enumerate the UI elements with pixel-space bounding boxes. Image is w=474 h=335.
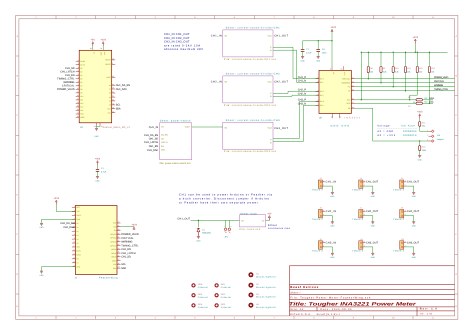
svg-text:+3V3: +3V3 <box>417 111 423 114</box>
title block <box>290 265 455 267</box>
svg-text:GND: GND <box>40 274 45 277</box>
wire CH2 sense to INA <box>273 91 319 93</box>
svg-text:TMstik-2: TMstik-2 <box>352 218 364 221</box>
svg-text:CH2_OUT: CH2_OUT <box>407 210 420 213</box>
svg-text:GND: GND <box>301 59 306 62</box>
J1 right pins <box>117 222 121 224</box>
svg-text:Vout: Vout <box>267 127 271 130</box>
svg-text:D7: D7 <box>80 85 82 88</box>
ground <box>40 271 43 273</box>
wire <box>92 46 94 50</box>
capacitor C8 <box>317 41 319 49</box>
svg-text:KiCad E.D.A.: KiCad E.D.A. <box>290 313 311 316</box>
svg-text:RST: RST <box>76 206 79 209</box>
svg-text:GND: GND <box>418 158 423 161</box>
svg-text:File: current-sense-hi-side-CH: File: current-sense-hi-side-CH1.sch <box>224 58 277 61</box>
svg-text:AREF: AREF <box>80 116 85 119</box>
svg-text:RESET: RESET <box>105 63 111 66</box>
svg-text:D2: D2 <box>80 67 82 70</box>
wire <box>367 73 369 79</box>
mounting hole H3 <box>248 293 253 298</box>
svg-text:D10: D10 <box>80 95 83 98</box>
svg-text:GND: GND <box>371 225 376 228</box>
wire 3V3 bus <box>331 31 333 66</box>
svg-text:G: G <box>455 273 457 276</box>
svg-text:1000001X: 1000001X <box>403 134 417 137</box>
svg-text:Sheet: power-switch: Sheet: power-switch <box>160 119 191 122</box>
svg-text:AREF: AREF <box>76 214 81 217</box>
svg-text:A0: A0 <box>348 107 350 110</box>
svg-text:MountingHole: MountingHole <box>256 286 276 289</box>
wire CH1_OUT rail <box>191 219 240 221</box>
svg-text:File: current-sense-hi-side-CH: File: current-sense-hi-side-CH3.sch <box>224 150 277 153</box>
svg-text:TIMING_CTRL: TIMING_CTRL <box>434 88 449 91</box>
op-amp U1 Adafruit_Metro_M0 MCU body <box>79 50 112 123</box>
svg-text:3V3: 3V3 <box>113 225 116 228</box>
svg-text:100n: 100n <box>322 51 326 54</box>
svg-text:SCL: SCL <box>429 101 434 104</box>
mounting hole H1 <box>248 272 253 277</box>
ground <box>371 253 374 255</box>
connector J9 terminal block CH3_IN <box>318 241 322 249</box>
wire CH1 sense to INA <box>273 47 319 78</box>
svg-text:+3V3: +3V3 <box>54 197 60 200</box>
svg-text:TMstik-2: TMstik-2 <box>393 250 405 253</box>
svg-text:+5V: +5V <box>267 212 272 215</box>
ground <box>95 128 98 130</box>
wire <box>419 151 421 156</box>
svg-text:GND: GND <box>96 179 101 182</box>
svg-text:+3V3: +3V3 <box>330 26 336 29</box>
svg-text:TMstik-2: TMstik-2 <box>352 250 364 253</box>
svg-text:R12: R12 <box>419 67 422 70</box>
svg-text:GND: GND <box>371 256 376 259</box>
svg-text:CH1_OUT: CH1_OUT <box>407 181 420 184</box>
ground <box>371 192 374 194</box>
svg-text:CH1_LATCH: CH1_LATCH <box>144 141 158 144</box>
svg-text:Vin: Vin <box>224 127 227 130</box>
svg-text:GND: GND <box>316 59 321 62</box>
border division ticks <box>55 16 57 19</box>
svg-text:J8: J8 <box>401 207 403 210</box>
ground <box>331 253 334 255</box>
svg-text:SCL: SCL <box>347 99 351 102</box>
svg-text:CH1_DAC: CH1_DAC <box>63 226 74 229</box>
svg-text:R14: R14 <box>422 122 425 125</box>
U2 left pins <box>316 78 320 80</box>
svg-text:CH1_DAC: CH1_DAC <box>116 88 127 91</box>
svg-text:10k: 10k <box>419 70 422 73</box>
svg-text:D5: D5 <box>80 78 82 81</box>
wire gnd row4 <box>42 219 76 223</box>
svg-text:CH1_OUT: CH1_OUT <box>177 218 190 221</box>
svg-text:CH3_P: CH3_P <box>298 99 307 102</box>
svg-text:CH2_N: CH2_N <box>298 92 306 95</box>
svg-text:A3: A3 <box>109 96 111 99</box>
svg-text:I2C Addr: I2C Addr <box>401 124 415 127</box>
svg-text:TMstik-2: TMstik-2 <box>312 250 324 253</box>
ground <box>418 156 421 158</box>
svg-text:CH2_OUT: CH2_OUT <box>366 210 379 213</box>
svg-text:R8: R8 <box>370 67 372 70</box>
svg-text:TMstik-2: TMstik-2 <box>352 189 364 192</box>
resistor R10 <box>392 52 394 66</box>
svg-text:D0/RX: D0/RX <box>80 60 86 63</box>
svg-text:A0 = GND: A0 = GND <box>377 130 393 133</box>
connector J7 terminal block CH2_OUT <box>359 210 363 218</box>
svg-text:SCL: SCL <box>108 111 111 114</box>
svg-text:CH3_N: CH3_N <box>298 103 306 106</box>
wire <box>392 73 394 87</box>
svg-text:CH2_IN CH2_OUT: CH2_IN CH2_OUT <box>164 37 190 40</box>
svg-text:CRITICAL: CRITICAL <box>342 77 350 80</box>
svg-text:500mA: 500mA <box>268 224 277 227</box>
fiducial FID1 <box>215 284 218 287</box>
svg-text:Fiducial: Fiducial <box>221 296 232 299</box>
svg-text:CH1_LATCH: CH1_LATCH <box>121 252 135 255</box>
svg-text:G: G <box>16 273 18 276</box>
svg-text:CH1_EN: CH1_EN <box>149 145 159 148</box>
fiducial FID2 <box>215 294 218 297</box>
svg-text:10k: 10k <box>431 70 434 73</box>
svg-text:MOSI: MOSI <box>76 250 81 253</box>
svg-text:MountingHole: MountingHole <box>256 275 276 278</box>
svg-text:File: power-switch-switch.sch: File: power-switch-switch.sch <box>160 162 192 165</box>
svg-text:A2: A2 <box>109 92 111 95</box>
ground <box>96 177 99 179</box>
svg-text:GND: GND <box>330 195 335 198</box>
wire R12 jog to SDA <box>410 73 418 100</box>
wire 3V3 bus top <box>414 44 416 53</box>
svg-text:CH2_P: CH2_P <box>298 89 307 92</box>
resistor R11 <box>405 52 407 66</box>
svg-text:+3V3: +3V3 <box>95 158 101 161</box>
svg-text:CRITICAL: CRITICAL <box>434 80 445 83</box>
svg-text:Size: A4: Size: A4 <box>290 308 304 311</box>
svg-text:D12: D12 <box>80 102 83 105</box>
mounting hole H2 <box>248 283 253 288</box>
svg-text:CH2_IN: CH2_IN <box>326 210 337 213</box>
svg-text:CH1_N: CH1_N <box>298 80 306 83</box>
svg-text:J7: J7 <box>360 207 362 210</box>
svg-text:GND: GND <box>371 195 376 198</box>
svg-text:GND GND: GND GND <box>331 125 350 128</box>
svg-text:J5: J5 <box>401 177 403 180</box>
U2 top pins <box>331 66 333 70</box>
svg-text:TMstik-2: TMstik-2 <box>312 189 324 192</box>
svg-text:MountingHole: MountingHole <box>256 306 276 309</box>
svg-text:D4: D4 <box>80 74 82 77</box>
ground <box>412 253 415 255</box>
svg-text:D9: D9 <box>80 92 82 95</box>
svg-text:CH2_IN: CH2_IN <box>211 81 222 84</box>
svg-text:CH1_DA_EN: CH1_DA_EN <box>116 84 130 87</box>
connector J1 FeatherWing body <box>75 206 117 275</box>
svg-text:CH3_IN CH3_OUT: CH3_IN CH3_OUT <box>164 41 190 44</box>
svg-text:BAT: BAT <box>113 222 116 225</box>
svg-text:MountingHole: MountingHole <box>256 296 276 299</box>
svg-text:A4: A4 <box>76 238 78 241</box>
svg-text:Sheet: current-sense-hi-side-C: Sheet: current-sense-hi-side-CH2 <box>226 73 281 76</box>
svg-text:D8: D8 <box>80 88 82 91</box>
svg-text:CH1_DAC: CH1_DAC <box>147 149 158 152</box>
svg-text:IN-3: IN-3 <box>320 104 323 107</box>
resistor R13 <box>428 52 430 66</box>
U2 right pins <box>351 78 355 80</box>
svg-text:Voltage: Voltage <box>377 124 390 127</box>
svg-text:A0 = +3V3: A0 = +3V3 <box>377 134 395 137</box>
svg-text:I2C: I2C <box>425 101 429 104</box>
svg-text:1000000X: 1000000X <box>403 130 417 133</box>
connector J5 terminal block CH1_OUT <box>400 180 404 188</box>
svg-text:TMstik-2: TMstik-2 <box>312 218 324 221</box>
svg-text:GND: GND <box>330 225 335 228</box>
svg-text:CH1_IN: CH1_IN <box>326 181 337 184</box>
capacitor C7 <box>302 41 304 49</box>
svg-text:J12: J12 <box>401 238 404 241</box>
svg-text:CH1_IN: CH1_IN <box>211 35 222 38</box>
svg-text:GPIO13: GPIO13 <box>110 233 116 236</box>
svg-text:GPIO12: GPIO12 <box>110 237 116 240</box>
resistor R9 <box>380 52 382 66</box>
svg-text:a buck converter. Disconnect j: a buck converter. Disconnect jumper if A… <box>179 197 270 200</box>
wire <box>428 73 430 104</box>
svg-text:23k: 23k <box>422 125 425 128</box>
svg-text:TMstik-2: TMstik-2 <box>393 218 405 221</box>
svg-text:GPIO5: GPIO5 <box>111 256 116 259</box>
svg-text:Vin: Vin <box>161 126 164 129</box>
svg-text:Fiducial: Fiducial <box>221 306 232 309</box>
svg-text:SMBJ26A: SMBJ26A <box>202 232 212 235</box>
svg-text:~~~~~~~~~~~~~~~~~~~~~~~~: ~~~~~~~~~~~~~~~~~~~~~~~~ <box>377 128 418 130</box>
svg-text:J3: J3 <box>320 177 322 180</box>
svg-text:POWER_VALID: POWER_VALID <box>121 233 139 236</box>
svg-text:+3V3: +3V3 <box>100 39 106 42</box>
svg-text:MISO: MISO <box>76 254 81 257</box>
svg-text:FeatherWing: FeatherWing <box>99 277 118 280</box>
op-amp U2 INA3221 body <box>319 70 351 113</box>
svg-text:A2: A2 <box>76 230 78 233</box>
svg-text:3V3: 3V3 <box>76 210 79 213</box>
svg-text:WARNING: WARNING <box>342 81 351 84</box>
svg-text:CH3_OUT: CH3_OUT <box>274 127 288 130</box>
svg-text:Fiducial: Fiducial <box>221 286 232 289</box>
svg-text:GND: GND <box>412 195 417 198</box>
svg-text:Sheet: /: Sheet: / <box>290 291 300 294</box>
svg-text:R7: R7 <box>408 105 410 108</box>
svg-text:SCL: SCL <box>80 109 83 112</box>
svg-text:GND: GND <box>95 135 100 138</box>
svg-text:CH1_DA_EN: CH1_DA_EN <box>144 134 158 137</box>
svg-text:are rated 0-24V 10A: are rated 0-24V 10A <box>164 44 200 47</box>
svg-text:TMstik-2: TMstik-2 <box>393 189 405 192</box>
svg-text:Vin: Vin <box>224 80 227 83</box>
svg-text:A5: A5 <box>109 104 111 107</box>
connector J10 pads <box>431 130 434 133</box>
svg-text:A0: A0 <box>76 222 78 225</box>
svg-text:IN-1: IN-1 <box>320 81 323 84</box>
svg-text:Fiducial: Fiducial <box>198 286 209 289</box>
svg-text:File: buck.sch: File: buck.sch <box>240 228 261 231</box>
resistor R8 <box>367 52 369 66</box>
svg-text:+3V3: +3V3 <box>413 36 419 39</box>
svg-text:I2C: I2C <box>425 97 429 100</box>
svg-text:4.7uF: 4.7uF <box>306 51 312 54</box>
svg-text:CH1_DA_EN: CH1_DA_EN <box>60 222 74 225</box>
wire to D1 <box>197 220 199 227</box>
resistor R14 <box>419 118 421 121</box>
mounting hole H4 <box>248 303 253 308</box>
svg-text:+5V: +5V <box>91 39 96 42</box>
svg-text:SCL: SCL <box>113 263 116 266</box>
svg-text:R13: R13 <box>431 67 434 70</box>
fiducial FID5 <box>192 294 195 297</box>
svg-text:POWER_VALID: POWER_VALID <box>57 88 75 91</box>
ground <box>412 192 415 194</box>
svg-text:A1: A1 <box>76 226 78 229</box>
svg-text:Jumper: Jumper <box>437 138 444 141</box>
resistor R12 <box>416 52 418 66</box>
svg-text:Title: Tougher INA3221 Power M: Title: Tougher INA3221 Power Meter <box>289 302 417 307</box>
svg-text:+3V3: +3V3 <box>131 224 137 227</box>
svg-text:Date: 2025-09-05: Date: 2025-09-05 <box>321 308 353 311</box>
svg-text:IN+1: IN+1 <box>320 77 324 80</box>
jumper JP1 pads <box>225 220 227 227</box>
svg-text:A5: A5 <box>76 242 78 245</box>
connector J6 terminal block CH2_IN <box>318 210 322 218</box>
svg-text:Id: 1/6: Id: 1/6 <box>420 313 433 316</box>
wire buck out to +5V <box>266 219 270 222</box>
ground <box>412 222 415 224</box>
svg-text:IN-2: IN-2 <box>320 94 323 97</box>
svg-text:CH1_SD: CH1_SD <box>121 256 131 259</box>
svg-text:A4: A4 <box>109 100 111 103</box>
svg-text:J4: J4 <box>360 177 362 180</box>
svg-text:Vin: Vin <box>224 34 227 37</box>
svg-text:CH2_OUT: CH2_OUT <box>274 81 288 84</box>
svg-text:3V3: 3V3 <box>103 52 106 55</box>
svg-text:MISO: MISO <box>112 259 117 262</box>
svg-text:R6: R6 <box>408 96 410 99</box>
svg-text:R9: R9 <box>383 67 385 70</box>
svg-text:J9: J9 <box>320 238 322 241</box>
svg-text:Adafruit_Metro_M0_v3: Adafruit_Metro_M0_v3 <box>103 126 131 129</box>
connector J11 terminal block CH3_OUT <box>359 241 363 249</box>
wire CH3 sense to INA <box>273 102 319 139</box>
svg-text:10k: 10k <box>407 70 410 73</box>
svg-text:A1: A1 <box>109 88 111 91</box>
svg-text:GPIO9: GPIO9 <box>111 248 116 251</box>
svg-text:Beast Devices: Beast Devices <box>290 285 318 289</box>
svg-text:100k: 100k <box>422 149 426 152</box>
svg-text:CH1_OUT: CH1_OUT <box>274 35 288 38</box>
svg-text:absolute maximum 28V: absolute maximum 28V <box>164 48 203 51</box>
svg-text:CH1_IN: CH1_IN <box>149 126 159 129</box>
svg-text:kicad (5.1.6)-1: kicad (5.1.6)-1 <box>317 313 341 316</box>
svg-text:R15: R15 <box>422 146 425 149</box>
svg-text:RESET: RESET <box>105 59 111 62</box>
svg-text:R10: R10 <box>395 67 398 70</box>
svg-text:GND: GND <box>40 226 45 229</box>
svg-text:CH3_OUT: CH3_OUT <box>407 242 420 245</box>
svg-text:CH1 can be used to power Ardui: CH1 can be used to power Arduino or Feat… <box>179 193 273 196</box>
svg-text:File: current-sense-hi-side-CH: File: current-sense-hi-side-CH2.sch <box>224 104 277 107</box>
ground <box>317 57 320 59</box>
svg-text:IN+3: IN+3 <box>320 100 324 103</box>
svg-text:CH1_OUT: CH1_OUT <box>366 181 379 184</box>
svg-text:AREF: AREF <box>106 76 111 79</box>
svg-text:VOUT: VOUT <box>185 126 191 129</box>
svg-text:A3: A3 <box>76 234 78 237</box>
svg-text:SCL: SCL <box>116 104 121 107</box>
svg-text:GPIO10: GPIO10 <box>110 244 116 247</box>
wire to +3V3 right <box>121 226 135 228</box>
svg-text:GND: GND <box>412 256 417 259</box>
svg-text:CH3_OUT: CH3_OUT <box>366 242 379 245</box>
svg-text:CH1_IN CH1_OUT: CH1_IN CH1_OUT <box>164 33 190 36</box>
wire gnd bottom <box>42 267 76 271</box>
svg-text:File: Tougher-Power-Meter-Feat: File: Tougher-Power-Meter-FeatherWing.sc… <box>290 297 371 300</box>
svg-text:Fiducial: Fiducial <box>198 306 209 309</box>
svg-text:IN+2: IN+2 <box>320 90 324 93</box>
svg-text:2.2k: 2.2k <box>395 70 399 73</box>
svg-text:GND: GND <box>412 225 417 228</box>
svg-text:A0: A0 <box>109 84 111 87</box>
svg-text:51: 51 <box>413 101 415 104</box>
U2 bottom pins <box>332 114 334 119</box>
svg-text:CH1_SD: CH1_SD <box>149 138 159 141</box>
svg-text:Vout: Vout <box>267 80 271 83</box>
svg-text:INA3221: INA3221 <box>345 117 361 120</box>
ground <box>331 222 334 224</box>
svg-text:CH3_IN: CH3_IN <box>326 242 337 245</box>
svg-text:2.2k: 2.2k <box>383 70 387 73</box>
ground <box>371 222 374 224</box>
diode D1 TVS <box>197 228 200 236</box>
U1 left pins <box>76 60 80 62</box>
connector J8 terminal block CH2_OUT <box>400 210 404 218</box>
connector J4 terminal block CH1_OUT <box>359 180 363 188</box>
svg-text:D11: D11 <box>80 99 83 102</box>
svg-text:4.7uF: 4.7uF <box>101 170 107 173</box>
svg-text:POWER_VALID: POWER_VALID <box>434 76 449 79</box>
svg-text:Rev: 1.0: Rev: 1.0 <box>420 308 438 311</box>
svg-text:GPIO11: GPIO11 <box>110 241 116 244</box>
J1 left pins <box>72 207 76 209</box>
U1 right pins <box>112 59 116 61</box>
svg-text:Sheet: current-sense-hi-side-C: Sheet: current-sense-hi-side-CH1 <box>226 27 281 30</box>
wire power-switch VOUT to CH3 Vin <box>192 126 223 128</box>
wire signal lines to labels <box>355 78 455 80</box>
svg-text:CH1_EN: CH1_EN <box>121 248 131 251</box>
connector J3 terminal block CH1_IN <box>318 180 322 188</box>
svg-text:continuous max: continuous max <box>268 227 291 230</box>
svg-text:J11: J11 <box>360 238 363 241</box>
svg-text:Vin: Vin <box>241 219 244 222</box>
svg-text:SCL: SCL <box>121 263 126 266</box>
ground <box>40 223 43 225</box>
wire SCL line w/ series resistor <box>355 102 416 104</box>
resistor R15 <box>419 141 421 146</box>
wire <box>420 126 429 131</box>
wire <box>56 205 75 212</box>
wire A0 from U2 <box>355 108 429 141</box>
capacitor C1 <box>96 168 99 170</box>
svg-text:DA_EN: DA_EN <box>161 134 168 137</box>
wire <box>97 165 99 169</box>
ground <box>301 57 304 59</box>
svg-text:SDA: SDA <box>121 267 126 270</box>
